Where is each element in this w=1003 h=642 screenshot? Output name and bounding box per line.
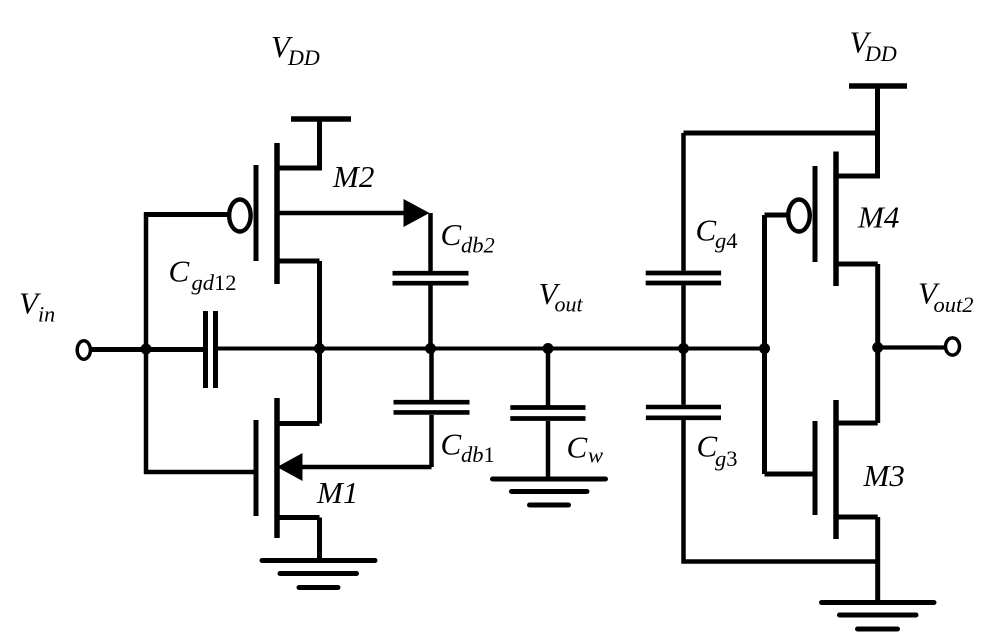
transistor M2 gate bar	[254, 165, 259, 261]
arrowhead on M2 body line (points right)	[404, 199, 430, 227]
svg-text:M3: M3	[863, 458, 905, 493]
input terminal Vin	[77, 341, 90, 359]
wire M3 drain stub	[836, 421, 878, 426]
wire M2 drain stub down to output node	[279, 261, 320, 424]
label VDD (right)	[850, 25, 897, 67]
node Cdb2 junction	[425, 343, 436, 354]
svg-text:C: C	[441, 217, 462, 252]
ground (below Cw)	[493, 479, 606, 505]
wire M1 body arrow line from Cdb1	[301, 465, 432, 470]
capacitor Cdb1 plates	[394, 402, 470, 412]
svg-text:db1: db1	[461, 442, 495, 467]
svg-text:M2: M2	[332, 159, 374, 194]
svg-text:out: out	[555, 292, 584, 317]
svg-text:db2: db2	[461, 233, 495, 258]
wire gate riser (vertical at x=763.5)	[762, 215, 767, 474]
wire M2 body arrow line to Cdb2	[277, 211, 406, 216]
capacitor Cw bottom lead	[546, 421, 551, 477]
label Vout2	[918, 276, 974, 318]
label Cg3	[697, 429, 738, 472]
wire rail Cg4 to VDD	[684, 131, 878, 136]
svg-text:w: w	[588, 443, 603, 468]
capacitor Cg4 bottom lead	[681, 285, 686, 348]
node Vout2 junction	[872, 342, 883, 353]
wire M3 gate stub	[765, 472, 814, 477]
svg-text:DD: DD	[287, 45, 320, 70]
svg-text:C: C	[567, 430, 588, 465]
wire VDD to M2 source	[279, 119, 320, 168]
node Cg3/Cg4 junction	[678, 343, 689, 354]
capacitor Cw top lead	[546, 348, 551, 406]
transistor M1 gate bar	[254, 420, 259, 516]
arrowhead on M1 body line (points left)	[277, 453, 303, 481]
label Cdb1	[441, 427, 495, 468]
wire M4 drain stub down to Vout2 node	[836, 264, 878, 423]
wire Vin to Cgd12	[92, 347, 203, 352]
transistor M2 (PMOS) channel bar	[274, 143, 280, 284]
capacitor Cdb1 bottom lead	[429, 415, 434, 467]
capacitor Cg4 top lead	[681, 133, 686, 271]
node gate riser junction	[759, 343, 770, 354]
label Cdb2	[441, 217, 495, 258]
capacitor Cg3 bottom lead and wire to M3 source	[684, 420, 878, 562]
ground (below M3)	[822, 603, 935, 630]
transistor M2 gate bubble	[229, 200, 251, 232]
capacitor Cdb2 top lead	[428, 213, 433, 271]
wire Vout2 to output terminal	[878, 345, 945, 349]
capacitor Cgd12 plates	[206, 311, 216, 388]
capacitor Cdb2 bottom lead	[428, 285, 433, 348]
wire M4 gate to gate riser	[765, 213, 791, 218]
wire VDD down to M4 source level	[838, 86, 878, 176]
transistor M3 gate bar	[813, 421, 818, 515]
label Cw	[567, 430, 604, 468]
node Cw junction	[543, 343, 554, 354]
svg-text:M4: M4	[857, 199, 899, 234]
svg-text:C: C	[696, 213, 717, 248]
transistor M4 gate bubble	[788, 200, 810, 232]
node M1/M2 drain junction	[314, 343, 325, 354]
wire input riser (vertical at x=146)	[144, 213, 149, 475]
svg-text:C: C	[169, 254, 190, 289]
capacitor Cdb2 plates	[393, 273, 469, 283]
wire M1 drain stub	[277, 421, 320, 426]
svg-text:C: C	[441, 427, 462, 462]
wire M1 gate	[144, 470, 254, 475]
power VDD bar (left)	[291, 116, 351, 122]
label Vin	[19, 286, 55, 327]
label VDD (left)	[271, 29, 320, 70]
svg-text:g4: g4	[715, 228, 738, 253]
svg-text:gd12: gd12	[192, 270, 237, 295]
capacitor Cg4 plates	[646, 273, 721, 283]
output terminal Vout2	[946, 338, 960, 355]
transistor M4 gate bar	[813, 166, 818, 262]
transistor M1 (NMOS) channel bar	[274, 398, 280, 538]
label Cg4	[696, 213, 738, 254]
label Vout	[539, 276, 584, 317]
wire Vout main (Cgd12 to gate riser of M3/M4)	[218, 347, 764, 351]
transistor M3 (NMOS) channel bar	[833, 400, 839, 539]
transistor M4 (PMOS) channel bar	[833, 152, 839, 287]
svg-text:g3: g3	[715, 446, 738, 471]
label Cgd12	[169, 254, 237, 296]
capacitor Cw plates	[510, 408, 585, 419]
wire M1 source stub	[277, 518, 320, 561]
svg-text:M1: M1	[316, 475, 358, 510]
wire M2 gate to input riser	[144, 212, 230, 217]
power VDD bar (right)	[849, 83, 907, 89]
wire M3 source stub to ground	[836, 517, 878, 603]
ground (below M1)	[262, 561, 375, 588]
capacitor Cdb1 top lead	[429, 348, 434, 400]
svg-text:in: in	[38, 302, 55, 327]
svg-text:DD: DD	[864, 41, 897, 66]
capacitor Cg3 top lead	[681, 348, 686, 405]
svg-text:out2: out2	[934, 292, 974, 317]
node input junction	[141, 344, 152, 355]
capacitor Cg3 plates	[646, 407, 721, 418]
